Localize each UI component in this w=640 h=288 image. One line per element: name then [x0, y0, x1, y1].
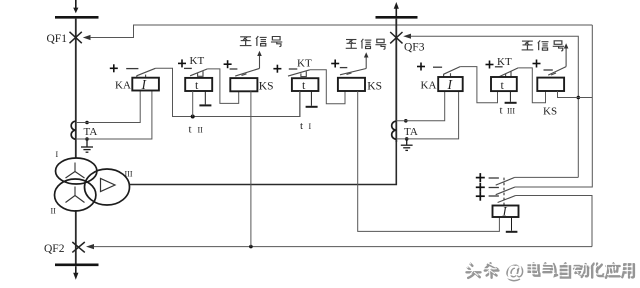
- signal relay coil KS1: [230, 78, 257, 91]
- trip arrow into QF3: [403, 34, 411, 39]
- wire: KS1 coil right terminal down to QF2 trip wire: [250, 91, 252, 246]
- wire: out3 to QF2 trip wire: [516, 196, 592, 247]
- outgoing arrow below bottom busbar: [73, 266, 78, 280]
- node tII junction: [191, 115, 195, 119]
- wire: winding III to right bus: [130, 140, 397, 185]
- wire: QF2 trip wire: [94, 246, 593, 248]
- plus terminal out3: [476, 192, 485, 201]
- delta symbol winding III: [101, 178, 116, 191]
- label 至信号 (group3): [522, 40, 564, 50]
- svg-text:KS: KS: [259, 81, 274, 93]
- current transformer TA (left): [71, 121, 76, 139]
- svg-text:QF2: QF2: [44, 243, 65, 255]
- breaker QF2 (open symbol X): [72, 242, 85, 252]
- wire: right bus vertical: [395, 19, 397, 142]
- contact KS2 (NO blade): [340, 69, 366, 75]
- contact out3 stub: [489, 195, 499, 197]
- svg-text:KT: KT: [497, 56, 512, 68]
- relay coil KA2: [438, 77, 463, 91]
- svg-text:QF3: QF3: [404, 42, 425, 54]
- wye symbol winding I: [66, 163, 85, 179]
- trip arrow into QF2: [86, 244, 94, 249]
- wire: KA2 contact to KT3 coil: [460, 67, 497, 103]
- wire: KT1 contact to KS1 coil: [207, 69, 238, 104]
- wye symbol winding II: [66, 187, 85, 203]
- wire: right TA secondary 2 to KA coil: [396, 91, 458, 139]
- contact KA1 (NO blade): [137, 68, 156, 78]
- svg-text:KS: KS: [367, 81, 382, 93]
- node: KS3/trip junction: [577, 96, 581, 100]
- busbar (top right): [376, 16, 418, 19]
- contact KT1 (delayed NO blade): [190, 69, 207, 76]
- output relay coil (I): [493, 206, 519, 218]
- wire: TA secondary 2 to KA coil: [76, 91, 152, 139]
- contact KA2 (NO blade): [443, 67, 460, 77]
- minus stub KS1 contact: [230, 68, 238, 70]
- contact out1 blade: [496, 177, 515, 185]
- wire: QF1 trip wire: [90, 25, 592, 38]
- mechanical linkage (dashed): [503, 178, 505, 206]
- busbar (bottom left): [55, 263, 99, 266]
- label 至信号 (group2): [346, 39, 387, 49]
- transformer winding I: [55, 158, 96, 184]
- plus terminal KA1: [110, 64, 118, 72]
- negative terminal of output relay: [506, 217, 518, 232]
- wire: left bus vertical lower part: [75, 210, 77, 264]
- breaker QF1 (open symbol X): [70, 32, 82, 43]
- outgoing line arrow (up) at top of right bus: [394, 2, 399, 16]
- negative terminal of KT1 coil: [199, 91, 211, 105]
- plus terminal KS2: [331, 60, 339, 68]
- plus terminal out1: [476, 173, 485, 182]
- contact KS1 (NO blade): [235, 68, 259, 76]
- timer coil KT1: [185, 78, 212, 91]
- minus stub KT3 contact: [495, 66, 503, 68]
- wire: out1 to QF3 trip vertical: [515, 176, 579, 178]
- incoming line arrow (down) at top of left bus: [73, 0, 78, 13]
- node: KS1 to trip-wire junction: [249, 245, 253, 249]
- signal relay coil KS2: [338, 78, 365, 91]
- timer coil KT2: [292, 78, 319, 91]
- wire: KA1 contact to KT coils rail: [155, 68, 300, 116]
- ground (TA right secondary): [401, 139, 413, 151]
- negative terminal of KT2 coil: [306, 91, 318, 107]
- svg-text:I: I: [502, 205, 508, 219]
- signal arrow KS2 (to signal): [364, 52, 369, 68]
- plus terminal out2: [476, 183, 485, 192]
- wire: TA secondary 1 to KA coil: [76, 91, 140, 123]
- relay coil KA1: [132, 78, 159, 91]
- svg-text:KA: KA: [421, 80, 437, 92]
- svg-text:t: t: [300, 120, 303, 132]
- svg-text:KS: KS: [543, 106, 557, 118]
- node: TA bottom secondary junction: [85, 137, 89, 141]
- signal arrow KS3 (to signal): [564, 43, 569, 66]
- busbar (top left): [55, 16, 99, 19]
- svg-text:TA: TA: [84, 126, 98, 138]
- svg-text:QF1: QF1: [47, 33, 68, 45]
- svg-text:III: III: [507, 107, 515, 116]
- plus terminal KT1: [178, 59, 186, 67]
- svg-text:III: III: [125, 170, 133, 179]
- svg-text:TA: TA: [404, 126, 418, 138]
- wire: KS3 coil right terminal to QF1 trip vertical: [558, 91, 593, 98]
- plus terminal KS3: [533, 60, 541, 68]
- plus terminal KA2: [417, 63, 425, 71]
- svg-text:I: I: [309, 122, 312, 131]
- wire: QF3 trip wire: [411, 36, 579, 177]
- svg-text:II: II: [198, 126, 204, 135]
- svg-text:t: t: [189, 124, 192, 136]
- contact out2 blade: [496, 187, 515, 195]
- signal arrow KS1 (to signal): [257, 51, 262, 69]
- contact out3 blade: [498, 196, 516, 203]
- svg-text:II: II: [51, 207, 57, 216]
- plus terminal KT2: [273, 65, 281, 73]
- current transformer TA (right): [392, 121, 397, 139]
- wire: KS2 coil right terminal to output relay coil: [358, 91, 500, 231]
- node: right TA bottom junction: [405, 137, 409, 141]
- trip arrow into QF1: [83, 35, 91, 40]
- negative terminal of KT3 coil: [505, 91, 517, 103]
- signal relay coil KS3: [537, 78, 564, 91]
- wire: KT3 contact to KS3 coil: [518, 68, 545, 103]
- wire: right TA secondary 1 to KA coil: [396, 91, 444, 121]
- label 至信号 (group1): [240, 36, 282, 46]
- contact KT2 (delayed NO blade): [288, 70, 310, 77]
- contact KS3 (NO blade): [548, 67, 566, 76]
- contact KT3 (delayed NO blade): [499, 68, 518, 77]
- wire: KT1 coil left terminal down to tII rail: [192, 91, 194, 117]
- ground (TA left secondary): [81, 139, 93, 152]
- plus terminal KT3: [486, 61, 494, 69]
- transformer winding II: [54, 179, 95, 211]
- svg-text:KA: KA: [115, 79, 131, 91]
- breaker QF3 (open symbol X): [390, 32, 402, 43]
- contact out1 stub: [489, 177, 499, 179]
- timer coil KT3: [491, 77, 517, 91]
- svg-text:t: t: [500, 105, 503, 117]
- node: right TA top junction: [404, 119, 408, 123]
- plus terminal KS1: [224, 60, 232, 68]
- transformer winding III: [85, 169, 130, 205]
- watermark 头条 @电气自动化应用 (embossed gray): [467, 261, 634, 283]
- minus stub KT1 contact: [184, 67, 192, 69]
- minus stub KA2 contact: [433, 66, 442, 68]
- minus stub KT2 contact: [289, 68, 298, 70]
- wire: KT2 contact to KS2 coil: [310, 70, 345, 104]
- node: TA top secondary junction: [85, 121, 89, 125]
- minus stub KS2 contact: [340, 67, 348, 69]
- svg-text:I: I: [56, 150, 59, 159]
- minus stub KS3 contact: [544, 69, 553, 71]
- wire: left bus vertical: [75, 19, 77, 158]
- svg-text:KT: KT: [190, 55, 205, 67]
- wire: KT2 coil left terminal to tII rail: [299, 91, 301, 117]
- wire: out2 to QF1 trip vertical: [515, 25, 592, 187]
- contact out2 stub: [489, 187, 499, 189]
- svg-text:KT: KT: [297, 58, 312, 70]
- minus stub KA1 contact: [126, 68, 138, 70]
